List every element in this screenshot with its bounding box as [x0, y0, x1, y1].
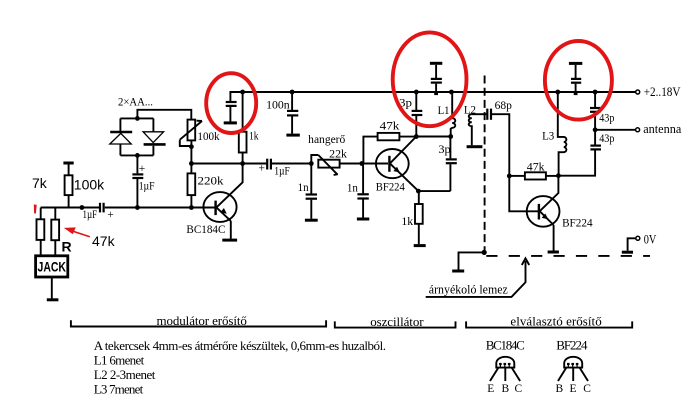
node buffer base bias — [507, 174, 512, 179]
svg-text:3p: 3p — [438, 144, 451, 156]
wire battery top — [137, 110, 191, 120]
svg-text:modulátor erősítő: modulátor erősítő — [157, 313, 247, 328]
svg-text:R: R — [62, 239, 72, 255]
svg-text:L3 7menet: L3 7menet — [94, 381, 144, 396]
capacitor 3p feedback top — [399, 90, 422, 137]
annotation red circle left — [206, 73, 256, 133]
ground Q3 emitter — [548, 251, 559, 254]
pins E B C labels — [487, 383, 522, 395]
svg-text:100k: 100k — [197, 131, 219, 143]
svg-text:hangerő: hangerő — [308, 134, 345, 146]
svg-text:47k: 47k — [527, 161, 545, 173]
diode box frame — [120, 118, 153, 155]
svg-text:BF224: BF224 — [562, 218, 593, 230]
node osc emitter — [416, 189, 421, 194]
svg-text:BC184C: BC184C — [186, 224, 225, 236]
terminal bar above 100k — [63, 162, 73, 165]
svg-text:+: + — [139, 163, 146, 175]
svg-text:1n: 1n — [298, 182, 309, 194]
svg-text:C: C — [583, 383, 591, 395]
svg-text:1µF: 1µF — [274, 166, 290, 178]
node battery top — [135, 116, 140, 121]
svg-text:L3: L3 — [542, 130, 554, 142]
node osc collector left — [414, 134, 419, 139]
bracket elvalaszto — [466, 321, 632, 327]
svg-text:L1: L1 — [438, 105, 450, 117]
svg-text:43p: 43p — [599, 133, 614, 145]
svg-text:220k: 220k — [198, 176, 224, 188]
node collector Q1 — [240, 161, 245, 166]
wire jack ground — [51, 277, 53, 299]
transistor Q1 BC184C — [203, 164, 242, 239]
wire antenna — [595, 129, 635, 131]
package BC184C pinout — [490, 357, 520, 381]
terminal +2..18V — [636, 90, 640, 94]
svg-text:22k: 22k — [329, 148, 347, 160]
capacitor 68p — [472, 100, 512, 176]
inductor L1 — [438, 90, 456, 137]
svg-text:oszcillátor: oszcillátor — [370, 314, 424, 329]
diode left — [110, 132, 132, 144]
annotation red mark input — [34, 204, 37, 213]
node antenna — [593, 127, 598, 132]
svg-text:2×AA...: 2×AA... — [118, 97, 153, 109]
ground 1n volume — [305, 219, 318, 222]
potentiometer 100k — [180, 120, 202, 146]
svg-text:A tekercsek 4mm-es átmérőre ké: A tekercsek 4mm-es átmérőre készültek, 0… — [94, 338, 386, 353]
node osc collector right — [448, 134, 453, 139]
svg-text:7k: 7k — [32, 175, 48, 191]
resistor 1k collector — [239, 92, 259, 164]
resistor 47k buffer — [509, 161, 558, 179]
wire collector node — [416, 136, 450, 138]
capacitor 1n volume — [298, 164, 317, 219]
annotation red circle right — [545, 41, 612, 120]
node 220k base — [189, 205, 194, 210]
wire feedback to collector — [191, 163, 242, 165]
shield dashed vertical — [484, 76, 486, 251]
pins B E C labels — [556, 383, 592, 395]
svg-text:1k: 1k — [401, 216, 413, 228]
svg-text:árnyékoló lemez: árnyékoló lemez — [429, 282, 508, 297]
node rail start — [240, 90, 245, 95]
ground 1n osc — [357, 218, 369, 221]
svg-text:0V: 0V — [644, 231, 657, 246]
capacitor 3p emitter — [438, 137, 456, 192]
resistor mic 7k — [37, 208, 45, 255]
ground Q1 emitter — [222, 239, 237, 242]
transistor Q2 BF224 oscillator — [376, 137, 419, 192]
svg-text:+2..18V: +2..18V — [644, 84, 681, 99]
svg-text:BF224: BF224 — [556, 337, 588, 352]
svg-text:+: + — [259, 162, 266, 174]
annotation red arrow 47k — [64, 227, 116, 249]
wire base Q2 — [362, 163, 388, 165]
node feedback — [189, 161, 194, 166]
svg-text:100k: 100k — [74, 177, 105, 193]
svg-text:1k: 1k — [249, 131, 259, 143]
ground jack — [47, 298, 59, 301]
capacitor 1uF coupling — [243, 159, 312, 178]
wire base line left — [41, 207, 100, 209]
resistor 1k emitter — [401, 191, 422, 244]
svg-text:43p: 43p — [599, 113, 614, 125]
node input junction — [80, 205, 85, 210]
bracket oszcillator — [335, 321, 456, 327]
resistor 220k — [188, 173, 224, 207]
ground 1k emitter — [414, 244, 426, 247]
wire emitter node — [418, 190, 450, 192]
svg-text:E: E — [570, 383, 577, 395]
ground 100n — [286, 134, 299, 137]
terminal 0V — [622, 231, 657, 252]
capacitor 43p bottom — [558, 130, 614, 176]
capacitor 1uF input — [83, 203, 114, 221]
svg-text:BC184C: BC184C — [486, 337, 525, 352]
node buffer collector — [556, 173, 561, 178]
svg-text:1n: 1n — [347, 183, 358, 195]
svg-text:antenna: antenna — [643, 121, 681, 136]
wire base line mid — [105, 207, 215, 209]
svg-text:E: E — [487, 383, 494, 395]
svg-text:47k: 47k — [92, 233, 116, 249]
svg-text:68p: 68p — [495, 100, 513, 112]
inductor L2 — [464, 105, 476, 146]
capacitor C trimmer right circled — [569, 63, 582, 95]
svg-text:C: C — [515, 383, 523, 395]
svg-text:B: B — [556, 383, 564, 395]
node oscillator base — [359, 161, 364, 166]
diode right — [143, 132, 166, 145]
inductor L3 — [542, 90, 566, 176]
capacitor 43p top — [590, 90, 615, 130]
node volume — [309, 161, 314, 166]
ground shield — [452, 252, 484, 271]
node shield corner — [482, 250, 487, 255]
capacitor C trimmer mid circled — [430, 63, 442, 95]
resistor 47k osc — [363, 121, 416, 164]
capacitor C trimmer left circled — [224, 92, 243, 123]
annotation red circle mid — [393, 32, 467, 126]
svg-text:47k: 47k — [380, 121, 400, 133]
potentiometer 22k volume — [311, 148, 362, 175]
wire supply rail — [243, 91, 636, 93]
capacitor 1n osc base — [347, 164, 369, 218]
capacitor 100n — [266, 90, 298, 134]
svg-text:1µF: 1µF — [139, 181, 155, 193]
svg-text:JACK: JACK — [38, 259, 67, 275]
package BF224 pinout — [558, 357, 588, 381]
svg-text:BF224: BF224 — [376, 182, 405, 194]
transistor Q3 BF224 buffer — [509, 176, 559, 251]
svg-text:L1 6menet: L1 6menet — [94, 352, 145, 367]
label arnyekolo lemez with arrow — [426, 258, 530, 297]
node battery cap base — [135, 205, 140, 210]
terminal antenna — [636, 128, 640, 132]
svg-text:+: + — [107, 209, 114, 221]
resistor 100k left — [65, 164, 73, 207]
svg-text:L2 2-3menet: L2 2-3menet — [94, 367, 156, 382]
bracket modulator — [71, 320, 326, 326]
svg-text:elválasztó erősítő: elválasztó erősítő — [510, 314, 601, 329]
capacitor 1uF battery — [132, 155, 154, 207]
svg-text:B: B — [502, 383, 510, 395]
connector JACK — [36, 256, 68, 277]
node pot wiper — [189, 144, 194, 149]
node battery bottom — [135, 153, 140, 158]
svg-text:100n: 100n — [266, 99, 290, 111]
shield dashed horizontal — [486, 255, 650, 257]
ground L2 — [467, 145, 483, 148]
wire pot to 220k — [190, 140, 192, 173]
svg-text:1µF: 1µF — [83, 209, 98, 221]
resistor R 47k — [51, 208, 59, 255]
